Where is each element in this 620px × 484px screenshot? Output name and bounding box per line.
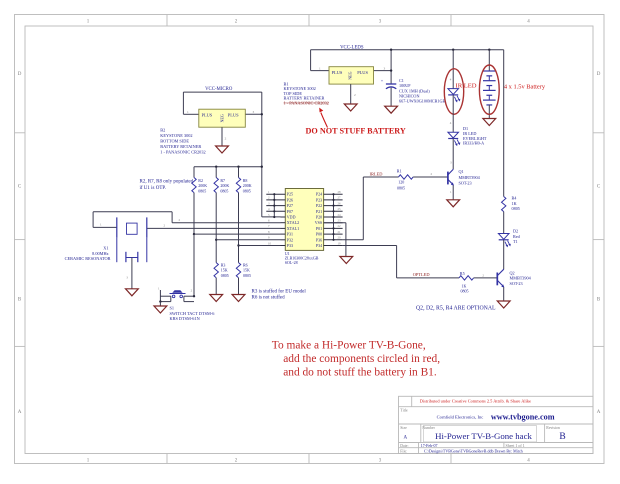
svg-text:Title: Title: [400, 407, 408, 412]
wire P34 to OPTLED column: [343, 245, 397, 247]
svg-text:P22: P22: [316, 203, 322, 208]
svg-text:28: 28: [338, 190, 342, 194]
note DO NOT STUFF BATTERY: [306, 127, 406, 136]
svg-text:P26: P26: [287, 197, 293, 202]
junction R2 column at P31: [193, 233, 195, 235]
svg-text:if U1 is OTP.: if U1 is OTP.: [140, 186, 166, 191]
junction battery column joins rail: [488, 49, 490, 51]
ground below R3: [210, 295, 223, 302]
ground below X1: [126, 289, 139, 296]
svg-text:R6: R6: [243, 262, 248, 267]
svg-text:P31: P31: [287, 232, 293, 237]
svg-text:3: 3: [384, 67, 386, 71]
transistor Q1: [448, 169, 454, 194]
resistor R6: [236, 262, 251, 278]
svg-text:SOT-23: SOT-23: [510, 281, 523, 286]
svg-text:P20: P20: [316, 215, 322, 220]
svg-text:VSS: VSS: [315, 220, 322, 225]
svg-text:P36: P36: [316, 237, 322, 242]
label X1 values: [65, 246, 111, 262]
wire rail right drop to R4: [503, 50, 505, 197]
svg-text:P21: P21: [316, 209, 322, 214]
svg-text:0805: 0805: [461, 289, 469, 294]
svg-text:IR LED: IR LED: [456, 82, 477, 89]
label Q1 values: [459, 169, 481, 185]
label D2 values: [513, 229, 521, 245]
svg-text:XTAL2: XTAL2: [287, 220, 299, 225]
ground below B1: [344, 104, 357, 111]
svg-text:17-Feb-07: 17-Feb-07: [421, 443, 438, 448]
wire P32 net: [216, 239, 280, 241]
wire Q1 emitter to ground: [452, 185, 454, 199]
wire 200K pullup rail: [194, 166, 262, 168]
wire X1 center cap pin to ground: [131, 258, 133, 289]
wire rail to battery stack: [488, 50, 490, 71]
ground below Q2: [497, 301, 510, 308]
junction C1 column joins rail: [390, 49, 392, 72]
svg-text:R8: R8: [243, 178, 248, 183]
junction S1 left to ground: [159, 295, 195, 303]
svg-text:D2: D2: [513, 229, 518, 234]
LED D1: [448, 132, 460, 146]
wire P31 net to S1: [194, 234, 281, 296]
svg-text:R3 is stuffed for EU model: R3 is stuffed for EU model: [252, 289, 307, 294]
resistor R1: [397, 169, 413, 191]
battery retainer B1: [319, 67, 386, 98]
svg-text:24: 24: [338, 213, 342, 217]
ground below battery stack: [483, 119, 496, 126]
svg-text:P25: P25: [287, 192, 293, 197]
wire left gang P25-P07 to VDD: [273, 194, 275, 217]
svg-text:SOT-23: SOT-23: [459, 180, 472, 185]
svg-text:www.tvbgone.com: www.tvbgone.com: [491, 413, 555, 422]
svg-text:19: 19: [338, 241, 342, 245]
svg-text:Sheet 1 of 1: Sheet 1 of 1: [506, 443, 525, 448]
junction R8 column at P33: [237, 244, 239, 246]
ground below C1: [385, 106, 398, 113]
svg-text:26: 26: [338, 201, 342, 205]
svg-text:PLUS: PLUS: [202, 113, 213, 118]
svg-text:B2: B2: [160, 128, 165, 133]
svg-text:VDD: VDD: [287, 215, 296, 220]
svg-text:1 - PANASONIC CR2032: 1 - PANASONIC CR2032: [284, 100, 329, 105]
svg-text:To make a Hi-Power TV-B-Gone,: To make a Hi-Power TV-B-Gone,: [272, 340, 426, 352]
resistor R4: [502, 196, 520, 212]
label U1 values: [285, 251, 319, 265]
capacitor C1: [381, 78, 397, 89]
ceramic resonator X1: [117, 217, 147, 279]
note IR LED (red): [456, 82, 477, 89]
svg-text:A: A: [404, 435, 408, 440]
wire VCC-LEDS rail: [311, 50, 504, 84]
svg-text:C:\Designs\TVBGone\TVBGoneRevB: C:\Designs\TVBGone\TVBGoneRevB.ddb Drawn…: [424, 448, 523, 453]
wire OPTLED net P34 to R5: [397, 246, 459, 278]
LED D2: [498, 234, 510, 248]
transistor Q2: [497, 269, 504, 287]
wire VSS to ground: [324, 223, 346, 257]
svg-text:A: A: [597, 410, 601, 415]
svg-text:P27: P27: [287, 203, 293, 208]
svg-text:PLUS: PLUS: [357, 70, 368, 75]
svg-text:Distributed under Creative Com: Distributed under Creative Commons 2.5 A…: [420, 399, 531, 404]
svg-text:Size: Size: [400, 426, 407, 430]
svg-text:XTAL1: XTAL1: [287, 226, 299, 231]
svg-text:10: 10: [268, 241, 272, 245]
svg-text:IRLED: IRLED: [370, 171, 383, 176]
wire X1 pin1 to XTAL2: [93, 212, 280, 228]
wire D1 to Q1 collector: [450, 139, 453, 169]
svg-text:20: 20: [338, 236, 342, 240]
junction B2 pin3 to rail: [261, 113, 263, 115]
wire C1 to ground: [390, 88, 392, 107]
svg-text:KRS DTSM-61N: KRS DTSM-61N: [170, 316, 200, 321]
red arrow to B1 note: [319, 108, 327, 128]
note 4 x 1.5v Battery (red): [504, 83, 546, 90]
svg-text:VCC-MICRO: VCC-MICRO: [205, 87, 233, 92]
svg-text:BOTTOM SIDE: BOTTOM SIDE: [160, 139, 189, 144]
wire S1 to ground: [159, 302, 161, 306]
svg-text:R6 is not stuffed: R6 is not stuffed: [252, 296, 286, 301]
svg-text:OPTLED: OPTLED: [413, 272, 430, 277]
svg-text:15K: 15K: [243, 268, 250, 273]
junction R7 column at P32: [215, 239, 217, 241]
svg-text:NEG: NEG: [348, 71, 353, 79]
junction left gang: [273, 193, 275, 218]
note R3 stuffed for EU model: [252, 289, 307, 300]
label D1 values: [463, 126, 487, 145]
resistor R7: [214, 167, 229, 194]
svg-text:0805: 0805: [397, 185, 405, 190]
wire right gang P24-P36: [333, 194, 335, 240]
resistor R3: [214, 262, 229, 278]
svg-text:IR333/H0-A: IR333/H0-A: [463, 141, 484, 146]
note hi-power instructions (red): [272, 340, 440, 379]
svg-text:8.00MHz: 8.00MHz: [92, 251, 108, 256]
svg-text:B: B: [559, 432, 565, 442]
svg-text:P00: P00: [316, 232, 322, 237]
svg-text:KEYSTONE 3002: KEYSTONE 3002: [160, 133, 192, 138]
svg-text:P34: P34: [316, 243, 322, 248]
svg-text:27: 27: [338, 196, 342, 200]
svg-text:P32: P32: [287, 237, 293, 242]
label B1 battery retainer text: [284, 82, 329, 106]
switch S1: [158, 286, 194, 301]
ground below R6: [232, 295, 245, 302]
svg-text:0805: 0805: [243, 188, 251, 193]
note R2 R7 R8 only populated if OTP: [140, 180, 194, 191]
wire P33 net: [239, 245, 281, 247]
red circle around IR LED: [444, 69, 463, 115]
svg-text:R3: R3: [221, 262, 226, 267]
resistor R8: [236, 167, 251, 194]
wire R4 to D2: [503, 212, 505, 234]
svg-text:120: 120: [398, 180, 404, 185]
svg-text:S1: S1: [170, 306, 175, 311]
wire R6 to ground: [238, 278, 240, 295]
svg-text:22: 22: [338, 224, 342, 228]
svg-text:1K: 1K: [512, 201, 517, 206]
svg-text:4 x 1.5v Battery: 4 x 1.5v Battery: [504, 83, 546, 90]
svg-text:667-UWX0G100MCR1GB: 667-UWX0G100MCR1GB: [399, 99, 446, 104]
svg-text:Hi-Power TV-B-Gone hack: Hi-Power TV-B-Gone hack: [435, 431, 532, 441]
svg-text:R2: R2: [198, 178, 203, 183]
net label IRLED: [370, 171, 383, 176]
net label VCC-LEDS: [340, 45, 364, 50]
svg-text:25: 25: [338, 207, 342, 211]
svg-text:P07: P07: [287, 209, 293, 214]
svg-text:PLUS: PLUS: [332, 70, 343, 75]
svg-text:0805: 0805: [512, 206, 520, 211]
svg-text:23: 23: [338, 219, 342, 223]
ground below S1: [154, 306, 167, 313]
svg-text:R7: R7: [220, 178, 225, 183]
note Q2 D2 R5 R4 optional: [416, 306, 496, 312]
junction pullup rail: [215, 166, 263, 168]
svg-text:2: 2: [354, 93, 356, 97]
wire B2 NEG pin stem: [221, 127, 223, 146]
label Q2 values: [510, 271, 532, 286]
svg-text:and do not stuff the battery i: and do not stuff the battery in B1.: [283, 367, 437, 379]
svg-text:SWITCH TACT DTSM-6: SWITCH TACT DTSM-6: [170, 311, 216, 316]
wire IRLED net P36 to R1: [363, 177, 398, 240]
svg-text:CERAMIC RESONATOR: CERAMIC RESONATOR: [65, 256, 111, 261]
wire R3 to ground: [215, 278, 217, 295]
ground below VSS: [340, 257, 353, 264]
junction right gang: [332, 193, 334, 241]
svg-text:200K: 200K: [243, 183, 252, 188]
battery 4 x 1.5v cells: [483, 71, 496, 119]
svg-text:0805: 0805: [220, 188, 228, 193]
svg-text:Q2, D2, R5, R4 ARE OPTIONAL: Q2, D2, R5, R4 ARE OPTIONAL: [416, 306, 496, 312]
wire D2 to Q2 collector: [503, 240, 505, 269]
svg-text:21: 21: [338, 230, 342, 234]
svg-text:0805: 0805: [243, 273, 251, 278]
svg-text:SOL-28: SOL-28: [285, 260, 298, 265]
wire Q2 emitter to ground: [503, 287, 505, 301]
svg-text:R1: R1: [397, 169, 402, 174]
svg-text:1: 1: [319, 67, 321, 71]
svg-text:T1: T1: [513, 239, 518, 244]
svg-text:P24: P24: [316, 192, 322, 197]
net label OPTLED: [413, 272, 430, 277]
ground below B2: [216, 146, 229, 153]
svg-text:200K: 200K: [220, 183, 229, 188]
svg-text:NEG: NEG: [219, 114, 224, 122]
wire VCC-MICRO rail: [183, 92, 280, 217]
svg-text:Red: Red: [513, 234, 521, 239]
svg-text:P01: P01: [316, 226, 322, 231]
junction D1 column joins rail: [452, 49, 454, 51]
svg-text:0805: 0805: [198, 188, 206, 193]
wire P36 to IRLED column: [343, 239, 364, 241]
svg-text:A: A: [18, 410, 22, 415]
wire R1 to Q1 base: [413, 172, 447, 177]
svg-text:3: 3: [253, 110, 255, 114]
svg-text:MMBT3904: MMBT3904: [459, 175, 481, 180]
label C1 values: [399, 78, 446, 104]
svg-text:P23: P23: [316, 197, 322, 202]
svg-text:BATTERY RETAINER: BATTERY RETAINER: [160, 144, 201, 149]
wire rail to hi-power LED: [452, 50, 454, 89]
svg-text:D: D: [18, 72, 22, 77]
wire R8 down to P33 and R6: [238, 193, 240, 263]
wire R2 down to P31 and S1: [193, 193, 195, 297]
op-amp U1 microcontroller body: [285, 189, 323, 251]
resistor R5: [459, 271, 474, 293]
svg-text:D: D: [597, 72, 601, 77]
svg-text:15K: 15K: [221, 268, 228, 273]
wire hi-power LED to D1: [450, 95, 454, 132]
svg-text:R5: R5: [460, 271, 465, 276]
svg-text:Date:: Date:: [400, 444, 408, 448]
label B2 battery retainer text: [160, 128, 205, 155]
svg-text:DO NOT STUFF BATTERY: DO NOT STUFF BATTERY: [306, 127, 406, 136]
svg-text:1K: 1K: [462, 283, 467, 288]
svg-text:P33: P33: [287, 243, 293, 248]
svg-text:R2, R7, R8 only populated: R2, R7, R8 only populated: [140, 180, 194, 185]
ground below Q1: [447, 200, 460, 207]
svg-text:1 - PANASONIC CR2032: 1 - PANASONIC CR2032: [160, 150, 205, 155]
svg-text:0805: 0805: [221, 273, 229, 278]
svg-text:2: 2: [225, 137, 227, 141]
svg-text:File:: File:: [400, 449, 407, 453]
net label VCC-MICRO: [205, 87, 233, 92]
svg-text:PLUS: PLUS: [228, 113, 239, 118]
svg-text:X1: X1: [103, 246, 108, 251]
resistor R2: [192, 167, 208, 194]
svg-text:1: 1: [187, 110, 189, 114]
battery retainer B2: [187, 109, 255, 140]
svg-text:Number: Number: [422, 426, 435, 430]
wire R5 to Q2 base: [474, 273, 497, 278]
svg-text:add the components circled in: add the components circled in red,: [283, 353, 440, 365]
U1 left pins: [266, 190, 299, 248]
svg-text:200K: 200K: [198, 183, 207, 188]
wire X1 pin2 to XTAL1: [147, 223, 281, 228]
wire R7 down to P32 and R3: [215, 193, 217, 263]
svg-text:Revision: Revision: [546, 426, 560, 430]
red circle around battery stack: [479, 65, 499, 114]
U1 right pins: [315, 190, 343, 248]
svg-text:Q1: Q1: [459, 169, 464, 174]
label S1 values: [170, 306, 216, 322]
hi-power IR LED (circled, to add): [448, 78, 460, 103]
wire B1 NEG pin stem: [350, 84, 352, 104]
